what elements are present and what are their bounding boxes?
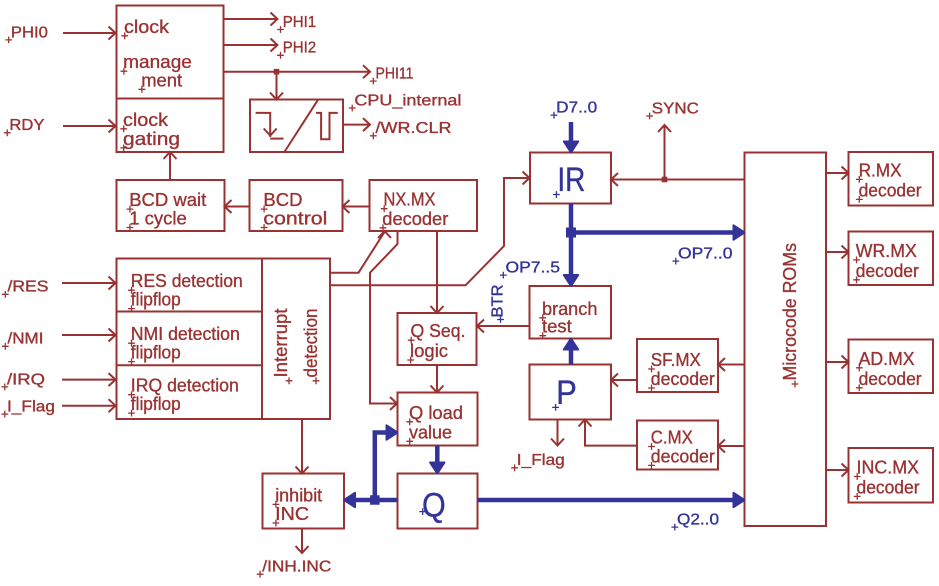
svg-text:1 cycle: 1 cycle bbox=[129, 208, 187, 229]
svg-text:PHI0: PHI0 bbox=[11, 24, 48, 41]
svg-text:value: value bbox=[409, 421, 452, 442]
Q load value box bbox=[398, 393, 478, 446]
edge/pulse converter box bbox=[250, 100, 343, 153]
wire SF.MX to P bbox=[611, 374, 637, 387]
wire junction to converter bbox=[270, 72, 283, 100]
text decoder (INC.MX) bbox=[854, 476, 920, 499]
svg-text:C.MX: C.MX bbox=[651, 427, 693, 448]
text branch bbox=[539, 298, 597, 321]
text INC.MX bbox=[854, 457, 919, 480]
svg-text:Interrupt: Interrupt bbox=[270, 309, 291, 378]
svg-text:/IRQ: /IRQ bbox=[7, 371, 45, 388]
svg-text:I_Flag: I_Flag bbox=[517, 452, 565, 469]
svg-text:SF.MX: SF.MX bbox=[651, 349, 701, 370]
svg-text:decoder: decoder bbox=[857, 476, 920, 497]
text decoder (WR.MX) bbox=[853, 260, 919, 283]
wire interrupt detection to IR bbox=[330, 172, 530, 286]
text control bbox=[261, 208, 328, 231]
bus Q to inhibit INC bbox=[344, 493, 398, 507]
text IR bbox=[553, 161, 585, 199]
wire RDY input bbox=[63, 120, 116, 133]
inhibit INC box bbox=[263, 474, 345, 529]
wire interrupt detection to NX.MX bbox=[330, 231, 391, 273]
wire SYNC output bbox=[658, 125, 671, 180]
wire PHI2 output bbox=[224, 39, 278, 52]
junction on IR output bus bbox=[566, 228, 576, 238]
label PHI2 bbox=[277, 40, 316, 59]
text clock (gating) bbox=[120, 109, 168, 132]
clock gating box bbox=[117, 99, 224, 153]
svg-text:SYNC: SYNC bbox=[652, 100, 699, 117]
svg-text:Microcode ROMs: Microcode ROMs bbox=[779, 243, 800, 381]
wire ROMs to SF.MX bbox=[718, 358, 745, 371]
wire NX.MX to Q load value bbox=[370, 231, 398, 410]
svg-text:clock: clock bbox=[123, 109, 169, 130]
wire inhibit INC to /INH.INC bbox=[296, 529, 309, 554]
bus Q load value to Q bbox=[430, 446, 444, 474]
svg-text:decoder: decoder bbox=[856, 260, 919, 281]
label PHI0 bbox=[5, 24, 48, 43]
text flipflop (RES) bbox=[128, 289, 181, 312]
text decoder (C.MX) bbox=[648, 445, 715, 468]
wire P to I_Flag output bbox=[551, 420, 564, 446]
WR.MX decoder box bbox=[849, 232, 934, 286]
svg-text:OP7..5: OP7..5 bbox=[506, 260, 561, 277]
INC.MX decoder box bbox=[849, 448, 934, 503]
svg-text:decoder: decoder bbox=[651, 445, 715, 466]
label /RES bbox=[2, 279, 49, 298]
text flipflop (NMI) bbox=[128, 342, 181, 365]
svg-text:/NMI: /NMI bbox=[8, 331, 44, 348]
svg-text:IR: IR bbox=[557, 161, 585, 199]
wire BCD wait to clock gating bbox=[164, 152, 177, 180]
text logic bbox=[407, 340, 448, 363]
svg-text:Q2..0: Q2..0 bbox=[677, 512, 719, 529]
text C.MX bbox=[648, 427, 693, 450]
wire PHI1 output bbox=[224, 13, 278, 26]
pulse symbol bbox=[316, 113, 338, 139]
svg-text:AD.MX: AD.MX bbox=[859, 348, 915, 369]
svg-text:/RES: /RES bbox=[8, 279, 49, 296]
text INC bbox=[273, 503, 310, 526]
svg-text:clock: clock bbox=[124, 16, 170, 37]
svg-text:decoder: decoder bbox=[651, 368, 715, 389]
junction on PHI11 wire bbox=[274, 69, 280, 75]
register IR box bbox=[530, 153, 611, 204]
text Microcode ROMs (rotated) bbox=[779, 243, 800, 387]
wire interrupt detection to inhibit INC bbox=[296, 419, 309, 474]
label RDY bbox=[4, 117, 45, 136]
bus OP7..0 to ROMs bbox=[571, 225, 745, 239]
junction on Q bus bbox=[370, 495, 380, 505]
Microcode ROMs box bbox=[745, 153, 827, 527]
svg-text:test: test bbox=[542, 316, 572, 337]
svg-text:D7..0: D7..0 bbox=[556, 100, 597, 117]
svg-text:decoder: decoder bbox=[382, 208, 448, 229]
svg-text:decoder: decoder bbox=[859, 368, 922, 389]
text manage bbox=[121, 51, 192, 74]
label OP7..0 bbox=[672, 246, 733, 265]
AD.MX decoder box bbox=[849, 340, 934, 394]
svg-text:/WR.CLR: /WR.CLR bbox=[376, 120, 452, 137]
text decoder (NX.MX) bbox=[380, 208, 449, 231]
text test bbox=[539, 316, 572, 339]
svg-text:WR.MX: WR.MX bbox=[856, 240, 917, 261]
wire PHI0 input bbox=[63, 27, 116, 40]
label /NMI bbox=[2, 331, 44, 350]
C.MX decoder box bbox=[637, 421, 718, 470]
svg-text:control: control bbox=[263, 208, 327, 229]
svg-text:flipflop: flipflop bbox=[131, 393, 181, 414]
wire ROMs to WR.MX bbox=[826, 246, 849, 259]
svg-text:decoder: decoder bbox=[859, 179, 922, 200]
label I_Flag input bbox=[1, 399, 55, 418]
label SYNC bbox=[646, 100, 699, 119]
svg-text:flipflop: flipflop bbox=[131, 342, 181, 363]
svg-text:OP7..0: OP7..0 bbox=[678, 246, 733, 263]
svg-text:Q Seq.: Q Seq. bbox=[411, 320, 466, 341]
wire ROMs to C.MX bbox=[718, 440, 745, 453]
wire /IRQ input bbox=[62, 373, 116, 386]
text SF.MX bbox=[648, 349, 701, 372]
text Interrupt (rotated) bbox=[270, 309, 292, 385]
text value bbox=[406, 421, 452, 444]
R.MX decoder box bbox=[849, 152, 934, 206]
text RES detection bbox=[128, 270, 243, 293]
branch test box bbox=[530, 286, 612, 339]
text Q Seq. bbox=[408, 320, 466, 343]
svg-text:INC: INC bbox=[275, 503, 309, 524]
svg-text:/INH.INC: /INH.INC bbox=[262, 559, 331, 576]
SF.MX decoder box bbox=[637, 339, 718, 392]
svg-text:PHI2: PHI2 bbox=[283, 40, 317, 57]
wire /NMI input bbox=[62, 329, 116, 342]
svg-text:PHI1: PHI1 bbox=[283, 14, 317, 31]
text IRQ detection bbox=[128, 375, 239, 398]
label /WR.CLR bbox=[370, 120, 452, 139]
text 1 cycle bbox=[127, 208, 187, 231]
wire C.MX to P bbox=[579, 420, 638, 446]
BCD wait 1 cycle box bbox=[117, 180, 225, 231]
BCD control box bbox=[250, 180, 343, 231]
svg-text:CPU_internal: CPU_internal bbox=[354, 92, 461, 109]
text flipflop (IRQ) bbox=[128, 393, 181, 416]
wire BTR branch test to Q Seq logic bbox=[477, 320, 530, 333]
bus D7..0 into IR bbox=[564, 122, 578, 153]
text WR.MX bbox=[853, 240, 917, 263]
text AD.MX bbox=[856, 348, 915, 371]
svg-text:NX.MX: NX.MX bbox=[384, 189, 436, 210]
label /INH.INC bbox=[257, 559, 332, 578]
wire ROMs to IR bbox=[611, 173, 745, 186]
label PHI1 bbox=[277, 14, 316, 33]
text gating bbox=[120, 128, 180, 151]
wire ROMs to R.MX bbox=[826, 167, 849, 180]
svg-text:Q: Q bbox=[422, 487, 446, 525]
wire /RES input bbox=[62, 277, 116, 290]
wire NX.MX to BCD control bbox=[343, 200, 370, 213]
label BTR (rotated) bbox=[490, 285, 507, 323]
svg-text:gating: gating bbox=[123, 128, 180, 149]
NX.MX decoder box bbox=[370, 180, 478, 231]
wire ROMs to INC.MX bbox=[826, 464, 849, 477]
bus IR to branch test bbox=[564, 204, 578, 287]
falling edge symbol bbox=[256, 113, 284, 139]
wire NX.MX to Q Seq logic bbox=[431, 231, 444, 313]
svg-text:I_Flag: I_Flag bbox=[7, 399, 55, 416]
wire BCD control to BCD wait bbox=[225, 200, 250, 213]
text P (register) bbox=[552, 374, 577, 412]
slash separator bbox=[285, 99, 319, 151]
svg-text:BTR: BTR bbox=[490, 285, 507, 318]
text decoder (R.MX) bbox=[856, 179, 922, 202]
text detection (rotated) bbox=[300, 309, 321, 385]
Q Seq logic box bbox=[398, 313, 477, 365]
clock management box bbox=[117, 6, 224, 99]
wire ROMs to AD.MX bbox=[826, 356, 849, 369]
text Q load bbox=[406, 402, 463, 425]
wire PHI11 output bbox=[224, 65, 371, 78]
svg-text:detection: detection bbox=[300, 309, 321, 378]
label OP7..5 bbox=[500, 260, 560, 279]
interrupt detection outer box bbox=[117, 259, 331, 420]
svg-text:P: P bbox=[556, 374, 577, 412]
bus P to branch test bbox=[564, 339, 578, 365]
register P box bbox=[530, 365, 612, 420]
svg-text:PHI11: PHI11 bbox=[376, 66, 414, 83]
label CPU_internal bbox=[349, 92, 462, 111]
svg-text:logic: logic bbox=[410, 340, 448, 361]
text ment bbox=[139, 69, 183, 92]
text BCD bbox=[261, 189, 303, 212]
wire /WR.CLR output bbox=[343, 118, 370, 131]
label Q2..0 bbox=[671, 512, 719, 531]
svg-text:flipflop: flipflop bbox=[131, 289, 181, 310]
text decoder (SF.MX) bbox=[648, 368, 715, 391]
text decoder (AD.MX) bbox=[856, 368, 922, 391]
text Q (register) bbox=[419, 487, 445, 525]
text R.MX bbox=[856, 159, 902, 182]
svg-text:RDY: RDY bbox=[9, 117, 44, 134]
text NX.MX bbox=[381, 189, 436, 212]
label PHI11 bbox=[370, 66, 414, 85]
bus Q2..0 to ROMs bbox=[478, 493, 745, 507]
bus Q junction to Q load value bbox=[375, 425, 398, 500]
junction on ROMs-IR wire bbox=[662, 177, 668, 183]
svg-text:R.MX: R.MX bbox=[859, 159, 902, 180]
text clock (management) bbox=[121, 16, 169, 39]
label D7..0 bbox=[551, 100, 598, 119]
label I_Flag from P bbox=[511, 452, 565, 471]
svg-text:ment: ment bbox=[141, 69, 182, 90]
wire I_Flag input bbox=[62, 399, 116, 412]
wire Q Seq logic to Q load value bbox=[431, 365, 444, 393]
register Q box bbox=[398, 474, 478, 529]
svg-text:Q load: Q load bbox=[409, 402, 463, 423]
text NMI detection bbox=[128, 323, 240, 346]
svg-text:INC.MX: INC.MX bbox=[857, 457, 920, 478]
text inhibit bbox=[273, 484, 323, 507]
label /IRQ bbox=[1, 371, 45, 390]
text BCD wait bbox=[127, 189, 207, 212]
